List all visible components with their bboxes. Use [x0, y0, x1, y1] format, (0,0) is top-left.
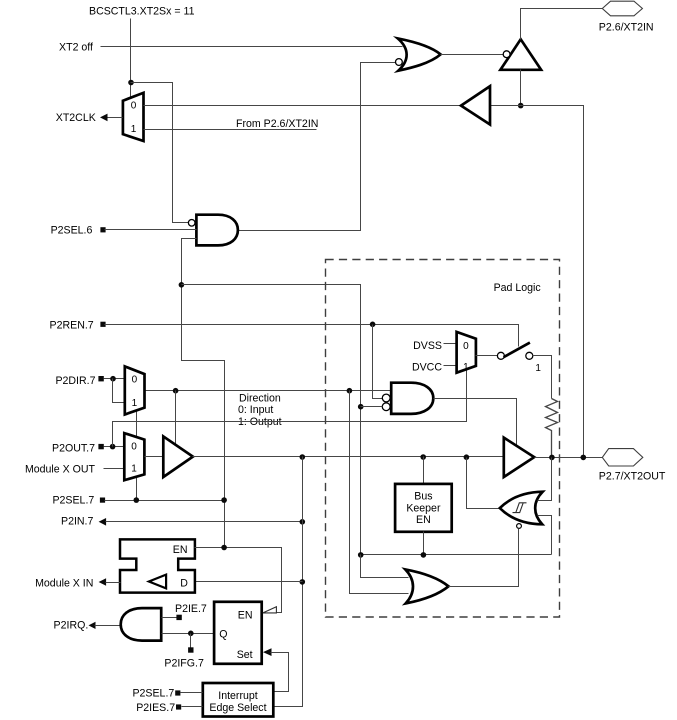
svg-text:EN: EN: [416, 514, 431, 526]
wire XT2CLK output: [108, 117, 123, 119]
mux M4 DVSS DVCC select: [457, 332, 476, 373]
wire OR U4 output to tristate U2 enable bubble: [441, 54, 504, 56]
terminal P2IES.7: [176, 704, 181, 709]
wire Module X IN stub: [106, 582, 121, 584]
wire schmitt top input from pad net: [538, 458, 552, 501]
wire mux M4 output to switch left contact: [476, 355, 498, 357]
junction keeper row left: [358, 552, 364, 558]
bubble schmitt enable: [517, 524, 522, 529]
mux M2 P2DIR direction mux: [125, 366, 145, 414]
pad driver buffer U8: [504, 438, 534, 477]
wire OR U9 output to schmitt enable bubble: [449, 529, 519, 587]
wire switch to resistor R1: [533, 356, 552, 399]
svg-text:0: 0: [131, 100, 137, 111]
bubble OR U4 lower input: [396, 59, 403, 66]
svg-text:1: 1: [463, 362, 469, 373]
wire P2DIR.7 to mux M2 input 0: [104, 378, 125, 380]
svg-text:P2SEL.6: P2SEL.6: [51, 225, 93, 237]
junction EN row with P2SEL vertical: [221, 545, 227, 551]
svg-text:P2IES.7: P2IES.7: [136, 702, 175, 714]
junction Direction dot A: [173, 388, 179, 394]
switch SW1 lever: [504, 343, 530, 358]
schmitt hysteresis symbol: [513, 503, 527, 513]
junction P2SEL.7 to EN vertical: [221, 497, 227, 503]
svg-text:P2.7/XT2OUT: P2.7/XT2OUT: [599, 471, 666, 483]
tristate buffer U2 XT2 oscillator output: [500, 39, 541, 70]
junction P2IN.7 tap: [300, 519, 306, 525]
mux M1 XT2CLK: [123, 93, 144, 141]
junction XT2 feedback node: [518, 103, 524, 109]
triangle clock mark in D box: [149, 575, 166, 589]
bubble AND U1 top input: [188, 220, 195, 227]
junction on BCSCTL3 select: [128, 80, 134, 86]
svg-text:XT2 off: XT2 off: [59, 42, 93, 54]
wire AND U11 input P2IE.7: [162, 617, 177, 619]
svg-text:DVCC: DVCC: [412, 361, 442, 373]
buffer U3 P2.6 input buffer: [461, 86, 490, 124]
svg-text:1: 1: [132, 398, 138, 409]
wire branch to pad logic NAND net: [182, 285, 361, 555]
svg-text:Bus: Bus: [414, 491, 432, 503]
wire DVSS to mux M4 input 0: [444, 343, 457, 345]
pad P2.7/XT2OUT hexagon: [602, 449, 643, 466]
svg-text:1: 1: [131, 124, 137, 135]
wire NAND lower input: [361, 406, 383, 408]
arrow XT2CLK: [100, 114, 108, 122]
svg-text:P2IE.7: P2IE.7: [175, 603, 207, 615]
svg-text:DVSS: DVSS: [413, 340, 442, 352]
svg-text:P2SEL.7: P2SEL.7: [52, 495, 94, 507]
svg-text:Pad Logic: Pad Logic: [494, 282, 542, 294]
wire U2 output to P2.6 pad: [521, 9, 603, 40]
wire P2REN.7 to switch lever: [105, 325, 519, 347]
svg-text:Edge Select: Edge Select: [209, 702, 266, 714]
terminal P2SEL.7: [100, 498, 105, 503]
box FF interrupt flag flipflop: [214, 602, 262, 664]
wire buffer U7 output row to pad driver U8: [193, 456, 504, 458]
svg-text:0: 0: [132, 375, 138, 386]
wire D input row: [195, 581, 303, 583]
wire P2IN.7 row: [106, 521, 303, 523]
arrow Set input: [263, 648, 272, 656]
wire from BCSCTL3 junction to AND U1 top input: [131, 83, 189, 223]
wire P2SEL.6 to AND U1 middle input: [105, 229, 197, 231]
bubble NAND U6 upper input: [382, 394, 390, 402]
schmitt trigger U10 input buffer: [500, 492, 543, 525]
wire XT2 off to OR U4 top input: [101, 46, 403, 48]
wire schmitt output riser: [467, 458, 499, 509]
wire bus keeper bottom connection: [423, 532, 425, 555]
svg-text:P2DIR.7: P2DIR.7: [55, 375, 95, 387]
wire EN row to FF wedge: [195, 548, 282, 613]
terminal P2IE.7: [176, 615, 181, 620]
wire keeper row: [361, 554, 552, 556]
junction out row to schmitt output riser: [464, 454, 470, 460]
terminal P2SEL.6: [100, 227, 105, 232]
arrow P2IRQ output: [89, 622, 96, 629]
wire DVCC to mux M4 input 1: [444, 365, 457, 367]
svg-text:Set: Set: [237, 649, 253, 661]
junction Direction dot B: [347, 388, 353, 394]
wire to OR U9 upper input: [361, 555, 409, 578]
junction out row to P2IN net: [300, 454, 306, 460]
mux M3 P2OUT output mux: [124, 433, 144, 480]
buffer U7 output driver stage1: [163, 436, 193, 477]
svg-text:Q: Q: [219, 628, 227, 640]
wire P2IRQ from AND U11: [95, 625, 121, 627]
dashed box Pad Logic: [326, 260, 560, 618]
AND gate U11 interrupt leftward: [121, 608, 162, 641]
arrow P2IN.7: [99, 518, 107, 526]
wire Direction row mux M2 output to NAND U6: [145, 390, 392, 392]
wire NAND U6 output to pad driver U8 enable: [434, 399, 517, 446]
svg-text:1: 1: [535, 363, 541, 374]
junction keeper row buskeeper: [421, 552, 427, 558]
svg-text:0: 0: [463, 341, 469, 352]
wire Module X OUT to mux M3 input 1: [104, 468, 125, 470]
box Bus Keeper EN: [395, 484, 452, 532]
OR gate U9: [405, 569, 448, 603]
wire U8 output to pad P2.7: [535, 457, 603, 459]
wire schmitt lower input from keeper net: [538, 516, 552, 555]
pad P2.6/XT2IN hexagon: [602, 1, 642, 16]
svg-text:P2OUT.7: P2OUT.7: [52, 442, 95, 454]
wire P2DIR branch to mux M2 input 1: [113, 379, 125, 403]
junction resistor to pad row: [549, 455, 555, 461]
wire P2IES.7 to edge select box: [182, 706, 203, 708]
junction P2SEL.7 mux select: [134, 497, 140, 503]
wire P2IFG.7 riser: [190, 634, 192, 648]
bubble NAND U6 lower input: [382, 403, 390, 411]
wire U2 input from XT2OUT net: [520, 70, 522, 106]
svg-text:EN: EN: [173, 544, 188, 556]
switch SW1 left contact: [497, 352, 504, 359]
wire Direction to buffer U7 enable: [175, 391, 177, 445]
wire bus keeper top connection: [423, 457, 425, 484]
module X IN latch shape: [120, 539, 195, 592]
wire mux M1 input 1 From P2.6/XT2IN: [144, 129, 317, 131]
bubble U2 enable: [503, 51, 510, 58]
svg-text:BCSCTL3.XT2Sx = 11: BCSCTL3.XT2Sx = 11: [89, 5, 195, 17]
wire P2SEL.7 to edge select box: [181, 692, 203, 694]
wire junction to right vertical: [491, 106, 584, 458]
wire P2IN net vertical: [274, 457, 303, 707]
svg-text:Module X IN: Module X IN: [35, 577, 93, 589]
wire mux M3 output to buffer U7: [145, 456, 164, 458]
svg-text:From P2.6/XT2IN: From P2.6/XT2IN: [236, 118, 318, 130]
resistor R1 pullup pulldown: [546, 399, 558, 458]
wire Direction branch to OR U9 lower input: [350, 391, 409, 594]
svg-text:Keeper: Keeper: [406, 502, 441, 514]
wedge FF enable triangle: [263, 607, 277, 613]
svg-text:0: 0: [131, 442, 137, 453]
svg-text:P2REN.7: P2REN.7: [50, 320, 94, 332]
junction Q row P2IFG tap: [188, 631, 194, 637]
NAND gate U6 pad logic: [391, 383, 433, 414]
junction XT2 vertical to pad row: [581, 455, 587, 461]
wire mux M2 M3 select from P2SEL.7 row: [136, 412, 138, 501]
svg-text:Module X OUT: Module X OUT: [25, 464, 96, 476]
svg-text:P2IRQ.: P2IRQ.: [54, 620, 89, 632]
wire AND U1 output to OR U4 lower input: [238, 63, 396, 231]
svg-text:Direction: Direction: [239, 393, 281, 405]
wire BCSCTL3 select vertical: [130, 19, 132, 98]
wire Set from interrupt edge select: [271, 653, 289, 692]
terminal P2SEL.7 lower: [175, 690, 180, 695]
wire AND U11 input from FF Q: [162, 633, 215, 635]
terminal P2OUT.7: [98, 444, 103, 449]
junction P2OUT branch: [110, 444, 116, 450]
junction D input tap: [300, 579, 306, 585]
wire AND U1 bottom input from P2SEL.7 net: [182, 239, 225, 548]
switch SW1 right contact: [526, 352, 533, 359]
box Interrupt Edge Select: [203, 683, 273, 717]
wire P2SEL.7 row: [105, 500, 225, 502]
svg-text:P2SEL.7: P2SEL.7: [132, 688, 174, 700]
wire P2REN branch to NAND U6 upper bubble: [373, 325, 383, 399]
junction NAND lower input tap: [358, 404, 364, 410]
wire P2OUT branch to DVSS DVCC mux M4 select: [113, 370, 467, 447]
junction P2REN branch to NAND: [370, 322, 376, 328]
AND gate U1 with inverted top input: [196, 215, 238, 246]
svg-text:Interrupt: Interrupt: [218, 690, 258, 702]
terminal P2IFG.7: [188, 647, 193, 652]
terminal P2DIR.7: [98, 376, 103, 381]
svg-text:P2.6/XT2IN: P2.6/XT2IN: [599, 21, 654, 33]
wire mux M1 input 0 from P2.6 buffer U3: [144, 105, 461, 107]
svg-text:P2IN.7: P2IN.7: [61, 516, 93, 528]
svg-text:1: 1: [131, 463, 137, 474]
junction P2DIR branch: [110, 376, 116, 382]
junction AND U1 bottom input branch: [179, 282, 185, 288]
junction out row to bus keeper: [420, 454, 426, 460]
OR gate U4: [398, 38, 441, 70]
svg-text:EN: EN: [238, 610, 253, 622]
svg-text:XT2CLK: XT2CLK: [56, 112, 96, 124]
svg-text:0: Input: 0: Input: [238, 404, 273, 416]
terminal P2REN.7: [100, 322, 105, 327]
wire P2OUT.7 to mux M3 input 0: [104, 446, 125, 448]
svg-text:D: D: [180, 578, 188, 590]
svg-text:P2IFG.7: P2IFG.7: [164, 657, 204, 669]
arrow Module X IN: [99, 578, 107, 586]
